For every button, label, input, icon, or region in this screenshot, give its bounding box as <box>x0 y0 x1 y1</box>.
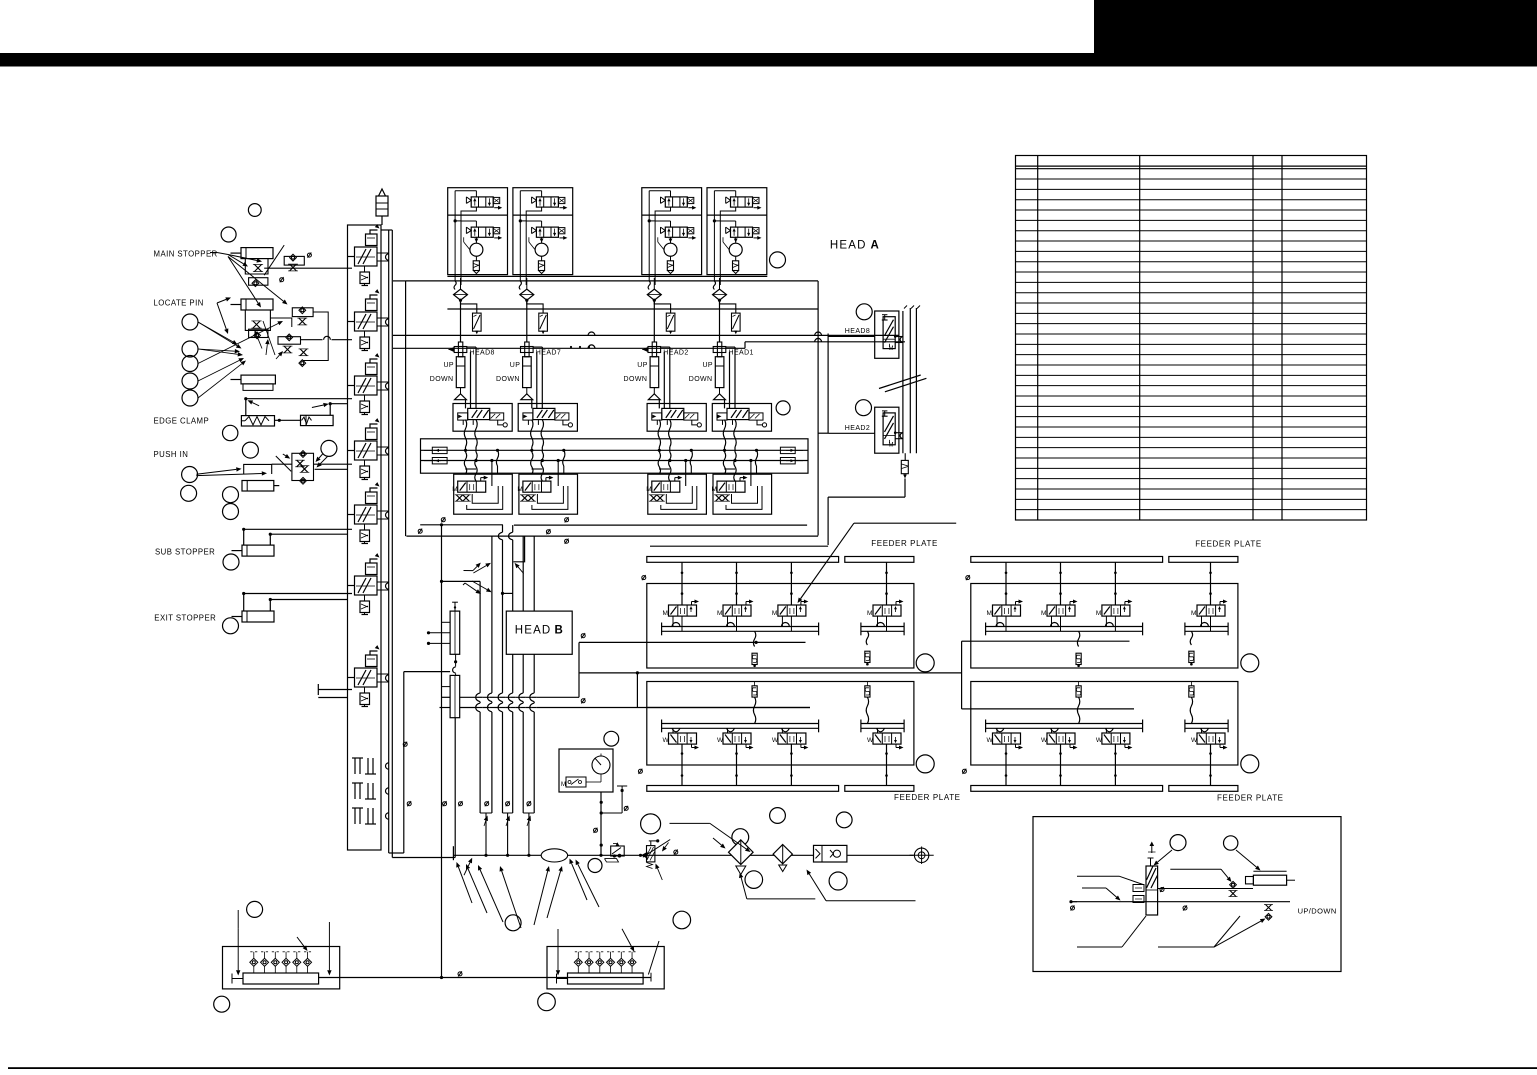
feeder phi marks <box>966 575 970 580</box>
head group box 4 <box>707 188 767 275</box>
svg-text:LOCATE PIN: LOCATE PIN <box>154 298 204 307</box>
right unit HEAD2 valve <box>882 411 895 449</box>
silencer stem <box>904 453 906 460</box>
riser x637 <box>636 673 638 708</box>
EXIT STOPPER cylinder <box>242 611 274 622</box>
head 1 lower box inner wires <box>491 461 493 487</box>
main air line <box>453 854 913 856</box>
head A bottom line B <box>406 535 818 537</box>
bus line 6 <box>533 536 535 611</box>
bottom bus line <box>319 977 651 979</box>
manifold valve station 4 <box>348 418 389 479</box>
block1 arrows <box>237 928 239 970</box>
junction dots on air line <box>484 854 487 857</box>
right units bus lines <box>902 311 904 453</box>
inset flow control 1 <box>1230 881 1237 888</box>
feeder lower port lines B <box>1185 723 1228 725</box>
LOCATE PIN lower cylinder <box>241 375 275 384</box>
feeder lower flow controls <box>1076 686 1081 697</box>
cylinder HEAD2 exhaust triangle <box>653 388 655 394</box>
left feed line y671 <box>404 671 450 673</box>
right bracket vertical <box>817 281 819 536</box>
reference balloons <box>181 204 1259 1013</box>
head 2 lower valve box <box>519 474 578 514</box>
parts table grid <box>1016 156 1367 521</box>
feeder upper valves <box>987 600 1024 618</box>
svg-text:M: M <box>1041 610 1046 617</box>
head 2 coil tubes <box>531 420 533 447</box>
inset balloon leaders <box>1157 850 1172 862</box>
feeder upper box <box>647 584 914 669</box>
head 2 lower valve return loops <box>537 486 563 503</box>
manifold block left cap <box>232 978 243 980</box>
cylinder HEAD2 body <box>650 357 659 388</box>
feeder upper port lines B <box>861 626 904 628</box>
branch to speed valve head1 <box>461 300 477 313</box>
EDGE CLAMP supply lines <box>245 399 247 416</box>
feeder upper flow controls <box>753 631 755 646</box>
pressure switch stem <box>600 792 602 855</box>
feeder lower valves <box>987 733 1024 750</box>
manifold inlet filter <box>376 196 388 216</box>
svg-text:M: M <box>646 486 651 493</box>
svg-text:SUB STOPPER: SUB STOPPER <box>155 548 215 557</box>
manifold block bar <box>243 973 319 984</box>
manifold block outline <box>223 947 340 989</box>
station7 capped outputs <box>318 689 352 691</box>
LOCATE PIN check unit lower <box>278 337 301 345</box>
feeder leader line <box>854 522 956 524</box>
head group 3 regulator <box>664 243 677 256</box>
feeder right section feed <box>961 641 963 709</box>
head 1 upper 5/2 valve box <box>453 404 512 432</box>
head group 3 upper valve <box>661 197 697 210</box>
EDGE CLAMP right cylinder <box>301 415 334 425</box>
solenoid leader <box>670 822 710 824</box>
MAIN STOPPER shuttle box <box>249 278 268 286</box>
manifold valve station 1 <box>348 224 389 285</box>
head group 1 upper valve <box>466 197 502 210</box>
bus bottom pair bars <box>480 812 492 814</box>
head 4 lower 3/2 valve <box>712 476 748 494</box>
svg-text:M: M <box>772 610 777 617</box>
pressure switch box <box>559 749 613 792</box>
right unit HEAD8 valve <box>882 315 895 353</box>
svg-text:HEAD: HEAD <box>830 240 867 252</box>
inset main line <box>1071 901 1290 903</box>
bus line 5 <box>522 536 524 611</box>
head 4 lower valve return loops <box>732 486 758 503</box>
bracket to head2 label link <box>818 432 828 434</box>
feeder lower box <box>971 682 1238 766</box>
feed line y642 into left feeder <box>579 641 647 643</box>
silencer return line <box>904 479 906 498</box>
svg-text:W: W <box>1041 737 1048 744</box>
main down line head3 <box>653 300 655 342</box>
HEAD B box <box>506 611 572 654</box>
cable break slashes <box>879 375 921 389</box>
bracket-bus link <box>393 280 406 282</box>
head 1 lower 3/2 valve <box>452 476 488 494</box>
filter drain leaders <box>747 898 816 900</box>
head 1 lower valve box <box>454 474 513 514</box>
head 4 upper 5/2 valve box <box>712 404 771 432</box>
PUSH IN supply lines <box>314 463 353 465</box>
LOCATE PIN balloon leader fan <box>198 322 233 342</box>
speed control valve head2 <box>539 313 548 331</box>
air inlet arrow <box>464 862 470 875</box>
PUSH IN speed control unit <box>292 453 314 480</box>
svg-text:W: W <box>663 737 670 744</box>
svg-text:A: A <box>871 240 881 252</box>
pressure switch symbol <box>566 777 586 787</box>
filter 1 <box>729 840 754 865</box>
cylinder HEAD1 body <box>715 357 724 388</box>
svg-text:UP: UP <box>510 362 521 369</box>
check valve diamond head1 <box>454 281 456 290</box>
footer rule line <box>8 1067 1537 1069</box>
band left port connectors <box>432 447 447 453</box>
head group 4 lower valve <box>726 227 762 240</box>
head group 1 regulator <box>470 243 483 256</box>
LOCATE PIN check unit upper <box>292 308 313 317</box>
head 4 coil tubes <box>723 420 725 447</box>
svg-text:FEEDER PLATE: FEEDER PLATE <box>871 539 938 548</box>
muffler leader arrows <box>572 863 587 900</box>
ellipsis dots <box>570 346 572 348</box>
head 1 coil tubes <box>464 420 466 447</box>
head 1 column wires <box>466 347 477 408</box>
LOCATE PIN flow control <box>245 310 270 331</box>
feeder lower box <box>647 682 914 766</box>
head group 2 upper valve <box>532 197 568 210</box>
head group 1 silencer <box>473 261 479 271</box>
right unit HEAD8 bus stubs <box>895 336 903 338</box>
svg-text:M: M <box>663 610 668 617</box>
manifold supply bus B <box>391 230 393 858</box>
head group 2 regulator <box>535 243 548 256</box>
inset flow control 2 <box>1265 913 1272 920</box>
head A bottom line A <box>420 524 503 526</box>
svg-text:W: W <box>987 737 994 744</box>
head 3 column wires <box>659 347 670 408</box>
svg-text:W: W <box>1191 737 1198 744</box>
head 2 column wires <box>532 347 543 408</box>
head 4 upper 5/2 valve <box>717 408 767 427</box>
feeder lower port lines A <box>986 723 1143 725</box>
svg-text:FEEDER PLATE: FEEDER PLATE <box>1217 794 1284 803</box>
right unit HEAD8 box <box>875 311 899 358</box>
branch to speed valve head2 <box>527 300 543 313</box>
feeder plate bottom bar <box>647 786 839 792</box>
head 2 upper 5/2 valve <box>523 408 573 427</box>
feeder internal manifold line left-upper <box>647 641 806 643</box>
svg-text:W: W <box>1096 737 1103 744</box>
manifold body <box>348 225 382 850</box>
PUSH IN leader arrows <box>196 469 236 474</box>
svg-text:DOWN: DOWN <box>624 376 648 383</box>
horizontal line y697 <box>442 696 451 698</box>
manifold supply bus A <box>388 230 390 853</box>
manifold valve station 2 <box>348 289 389 350</box>
svg-text:HEAD: HEAD <box>515 625 552 637</box>
header black block top-right <box>1094 0 1537 67</box>
band bus line 2 <box>421 460 809 462</box>
feeder lower port lines B <box>861 723 904 725</box>
speed control valve head3 <box>666 313 675 331</box>
bus continuation to air line <box>485 813 487 855</box>
feeder plate top bar <box>647 557 839 563</box>
bus staircase jogs <box>513 536 524 562</box>
head2 label link <box>827 334 829 434</box>
cylinder HEAD7 exhaust triangle <box>526 388 528 394</box>
cylinder HEAD8 exhaust triangle <box>460 388 462 394</box>
head group 3 internal wires <box>670 191 672 197</box>
feeder phi marks <box>642 575 646 580</box>
LOCATE PIN label arrows <box>217 299 226 303</box>
svg-text:M: M <box>889 442 894 448</box>
head group 2 internal wires <box>541 191 543 197</box>
vertical x403 <box>403 672 405 853</box>
SUB STOPPER lines <box>244 528 352 530</box>
svg-text:M: M <box>717 610 722 617</box>
band right port connectors <box>780 447 795 453</box>
head group box 2 <box>513 188 573 275</box>
svg-text:HEAD8: HEAD8 <box>845 328 870 335</box>
inset leaders <box>1077 875 1120 877</box>
LOCATE PIN shuttle box <box>249 329 268 337</box>
manifold valve station 5 <box>348 482 389 543</box>
head 3 lower valve flow controls <box>649 495 658 501</box>
svg-text:M: M <box>867 610 872 617</box>
svg-text:HEAD7: HEAD7 <box>536 350 561 357</box>
feeder upper flow controls <box>1077 631 1079 646</box>
speed control valve head4 <box>732 313 741 331</box>
phi mark <box>280 277 284 282</box>
feeder upper port lines A <box>662 626 819 628</box>
svg-text:M: M <box>561 782 566 788</box>
head 4 column wires <box>725 347 736 408</box>
svg-text:M: M <box>517 486 522 493</box>
head group box 1 <box>448 188 508 275</box>
band bus line 1 <box>421 449 809 451</box>
head group 1 lower valve <box>466 227 502 240</box>
manifold bottom fittings <box>352 758 376 774</box>
svg-text:UP/DOWN: UP/DOWN <box>1298 907 1337 916</box>
bus line 3 <box>502 525 504 532</box>
head group 3 lower valve <box>661 227 697 240</box>
inset upper line <box>1158 888 1253 890</box>
svg-text:UP: UP <box>637 362 648 369</box>
svg-text:M: M <box>1191 610 1196 617</box>
head 1 upper 5/2 valve <box>458 408 508 427</box>
head 3 lower 3/2 valve <box>646 476 682 494</box>
head group 4 silencer <box>733 261 739 271</box>
head 3 lower valve box <box>648 474 707 514</box>
phi mark <box>307 253 311 258</box>
bus line 2 <box>491 536 493 813</box>
head group 1 internal wires <box>475 191 477 197</box>
head 3 upper 5/2 valve box <box>647 404 706 432</box>
pressure gauge <box>592 756 610 774</box>
junction link with hop <box>455 654 457 666</box>
bus arrows <box>473 566 477 570</box>
LOCATE PIN cylinder <box>241 299 273 310</box>
bus jogs at crossings <box>478 693 483 702</box>
junction component lower <box>450 675 460 717</box>
supply line to right units y335 <box>393 334 899 336</box>
feeder lower flow controls <box>752 686 757 697</box>
EDGE CLAMP link line <box>275 419 301 421</box>
svg-text:DOWN: DOWN <box>689 376 713 383</box>
cylinder HEAD8 body <box>456 357 465 388</box>
shutoff solenoid valve <box>649 840 658 842</box>
feeder plate bottom bar <box>971 786 1163 792</box>
HEAD2 silencer <box>901 460 908 473</box>
svg-text:W: W <box>867 737 874 744</box>
svg-text:W: W <box>772 737 779 744</box>
head 3 coil tubes <box>658 420 660 447</box>
check valve diamond head2 <box>519 281 521 290</box>
feeder upper port lines A <box>986 626 1143 628</box>
feeder upper box <box>971 584 1238 669</box>
svg-text:M: M <box>712 486 717 493</box>
svg-text:M: M <box>889 346 894 352</box>
MAIN STOPPER leader arrows <box>228 255 257 261</box>
svg-text:HEAD8: HEAD8 <box>470 350 495 357</box>
head group 2 lower valve <box>532 227 568 240</box>
head 4 lower valve flow controls <box>714 495 723 501</box>
manifold valve station 7 <box>348 645 389 706</box>
svg-text:M: M <box>1096 610 1101 617</box>
MAIN STOPPER cylinder <box>241 248 273 259</box>
bus line 4 <box>512 525 514 532</box>
EXIT STOPPER lines <box>244 593 352 595</box>
head 2 lower 3/2 valve <box>517 476 553 494</box>
manifold block bar <box>568 973 644 984</box>
svg-text:W: W <box>717 737 724 744</box>
svg-text:HEAD2: HEAD2 <box>845 425 870 432</box>
LOCATE PIN assembly frame <box>270 318 291 327</box>
branch to speed valve head4 <box>720 300 736 313</box>
feeder internal manifold line right-lower <box>971 708 1134 710</box>
phi marks head A bottom <box>441 517 445 522</box>
branch y581 <box>442 580 481 582</box>
feeder internal manifold line right-upper <box>971 640 1130 642</box>
head group 4 regulator <box>729 243 742 256</box>
feeder plate top bar <box>971 557 1163 563</box>
MAIN STOPPER flow control <box>245 259 268 274</box>
block2 arrows <box>557 929 559 970</box>
supply line to right units y346 stepped <box>393 347 745 349</box>
inset valve <box>1133 842 1158 916</box>
head 2 lower valve flow controls <box>520 495 529 501</box>
LOCATE PIN inner arrows <box>256 335 262 349</box>
check valve diamond head4 <box>713 281 715 290</box>
header black bar <box>0 53 1537 67</box>
manifold block check valves <box>250 958 258 966</box>
phi marks bus bottoms <box>407 801 411 806</box>
manifold bus bottom jog <box>389 852 404 854</box>
SUB STOPPER cylinder <box>242 545 274 556</box>
svg-text:M: M <box>452 486 457 493</box>
head A bottom line E right <box>650 545 828 547</box>
line to manifold station1 <box>264 267 352 269</box>
head group box 3 <box>642 188 702 275</box>
leader cross line <box>264 245 284 275</box>
svg-text:PUSH IN: PUSH IN <box>154 450 189 459</box>
svg-text:M: M <box>987 610 992 617</box>
cylinder HEAD2 mount cross <box>652 342 656 357</box>
cylinder HEAD1 mount cross <box>717 342 721 357</box>
vertical line x441 to bottom bus <box>441 525 443 978</box>
svg-text:B: B <box>555 625 565 637</box>
horizontal line y707 <box>440 707 451 709</box>
head A bottom line C <box>514 524 807 526</box>
svg-text:HEAD1: HEAD1 <box>729 350 754 357</box>
regulator-lubricator unit <box>814 845 847 862</box>
head group 4 upper valve <box>726 197 762 210</box>
MAIN STOPPER right check unit <box>284 256 304 265</box>
cylinder HEAD7 body <box>523 357 532 388</box>
line to manifold station2 <box>301 339 323 341</box>
cylinder HEAD8 mount cross <box>458 342 462 357</box>
inset box frame <box>1033 817 1341 972</box>
svg-text:DOWN: DOWN <box>496 376 520 383</box>
head group 4 internal wires <box>735 191 737 197</box>
head 2 upper 5/2 valve box <box>518 404 577 432</box>
head 3 lower valve return loops <box>666 486 692 503</box>
manifold valve station 6 <box>348 553 389 614</box>
main down line head4 <box>719 300 721 342</box>
EDGE CLAMP spring cylinder <box>241 416 274 426</box>
manifold block outline <box>547 947 664 989</box>
capped tee right of switch <box>621 786 623 813</box>
left bracket vertical <box>405 281 407 536</box>
cylinder HEAD1 exhaust triangle <box>719 388 721 394</box>
right unit HEAD2 bus stubs <box>895 432 903 434</box>
head 1 lower valve return loops <box>472 486 498 503</box>
svg-text:MAIN STOPPER: MAIN STOPPER <box>154 250 218 259</box>
muffler ellipse <box>541 849 567 862</box>
air source symbol <box>914 848 928 862</box>
distribution band box <box>421 439 809 473</box>
svg-text:FEEDER PLATE: FEEDER PLATE <box>894 793 961 802</box>
bus bottom arrows <box>484 820 486 826</box>
manifold block check valves <box>574 958 582 966</box>
vertical x455 down <box>454 718 456 858</box>
svg-text:HEAD2: HEAD2 <box>663 350 688 357</box>
svg-text:EXIT STOPPER: EXIT STOPPER <box>154 614 216 623</box>
bus line 1 <box>479 581 481 813</box>
supply band under boxes <box>447 275 767 277</box>
svg-text:UP: UP <box>443 362 454 369</box>
svg-text:FEEDER PLATE: FEEDER PLATE <box>1195 540 1262 549</box>
feeder lower port lines A <box>662 723 819 725</box>
head 2 lower box inner wires <box>557 461 559 487</box>
inset cylinder <box>1253 875 1286 885</box>
riser x579 <box>578 642 580 697</box>
manifold valve station 3 <box>348 353 389 414</box>
head group 2 silencer <box>538 261 544 271</box>
cylinder HEAD7 mount cross <box>525 342 529 357</box>
svg-text:UP: UP <box>702 362 713 369</box>
svg-text:EDGE CLAMP: EDGE CLAMP <box>154 416 210 425</box>
feeder lower valves <box>663 733 700 750</box>
right unit HEAD2 box <box>875 407 899 453</box>
manifold block left cap <box>557 978 568 980</box>
junction component upper <box>450 611 460 654</box>
